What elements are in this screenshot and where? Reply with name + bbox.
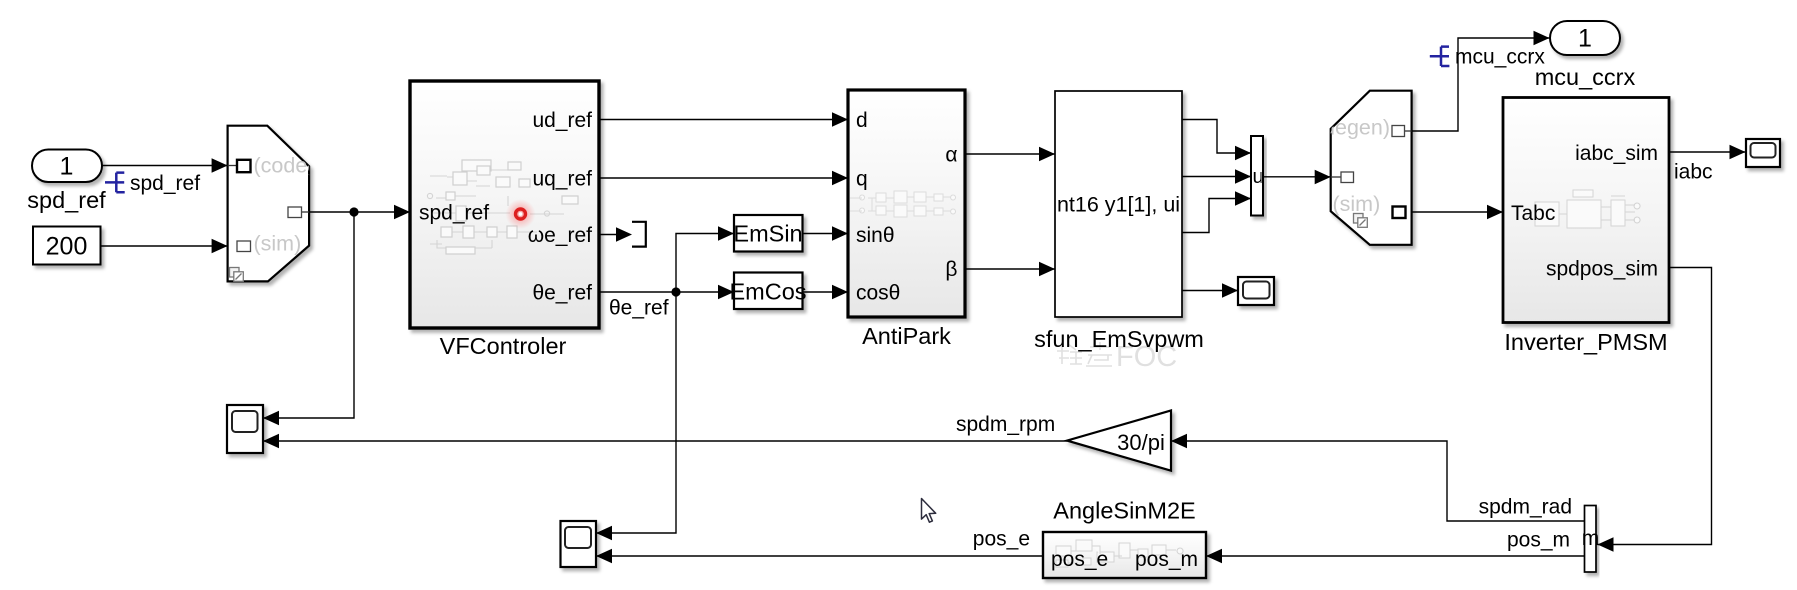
wire sfun out3 xyxy=(1182,199,1251,233)
wire EmCos out xyxy=(803,291,849,293)
svg-text:EmSin: EmSin xyxy=(733,221,802,247)
scope2 xyxy=(561,521,597,567)
svg-text:mcu_ccrx: mcu_ccrx xyxy=(1535,64,1636,90)
wire pos_e AngleSinM2E out to scope2 xyxy=(596,555,1043,557)
inport spd_ref xyxy=(27,150,106,214)
wire sfun out2 xyxy=(1182,176,1251,178)
wire iabc_sim to scope xyxy=(1669,151,1746,153)
wire variant2 gen to mcu_ccrx xyxy=(1404,38,1550,131)
wire sfun out4 to scope xyxy=(1182,290,1238,292)
wire thetae_ref xyxy=(596,234,734,534)
subsystem AntiPark xyxy=(848,90,965,349)
terminator xyxy=(632,222,646,247)
svg-text:pos_m: pos_m xyxy=(1135,548,1198,571)
block EmCos xyxy=(729,273,806,310)
subsystem AngleSinM2E xyxy=(1043,498,1206,579)
wire we_ref to terminator xyxy=(599,234,630,236)
svg-text:Tabc: Tabc xyxy=(1511,202,1555,225)
subsystem Inverter_PMSM xyxy=(1503,98,1669,356)
svg-text:m: m xyxy=(1582,527,1600,550)
svg-text:pos_e: pos_e xyxy=(973,528,1030,551)
svg-text:uq_ref: uq_ref xyxy=(532,168,592,191)
svg-text:d: d xyxy=(856,109,868,132)
svg-text:200: 200 xyxy=(46,233,88,261)
scope iabc xyxy=(1746,139,1780,167)
constant 200 xyxy=(33,227,101,265)
svg-text:VFControler: VFControler xyxy=(440,333,567,359)
junction node spd_ref branch xyxy=(349,207,358,216)
svg-text:spdm_rpm: spdm_rpm xyxy=(956,413,1055,436)
svg-text:spdm_rad: spdm_rad xyxy=(1479,496,1572,519)
svg-text:pos_m: pos_m xyxy=(1507,529,1570,552)
wire spdm_rpm gain out to scope1 xyxy=(263,440,1067,442)
arrowheads xyxy=(212,31,1746,564)
wire pos_m to AngleSinM2E xyxy=(1206,555,1585,557)
red breakpoint dot xyxy=(506,199,536,229)
svg-text:(sim): (sim) xyxy=(1333,192,1381,216)
svg-text:α: α xyxy=(945,144,957,167)
block EmSin xyxy=(733,215,802,252)
test point marker spd_ref xyxy=(105,173,125,193)
wire variant2 sim to Tabc xyxy=(1406,211,1504,213)
variant subsystem 2 xyxy=(1293,91,1411,245)
junction node thetae_ref branch xyxy=(671,287,680,296)
svg-text:mcu_ccrx: mcu_ccrx xyxy=(1455,46,1545,69)
test point marker mcu_ccrx xyxy=(1430,47,1450,66)
svg-text:spd_ref: spd_ref xyxy=(130,172,200,195)
wire beta xyxy=(965,268,1055,270)
svg-text:AntiPark: AntiPark xyxy=(862,323,951,349)
svg-text:spd_ref: spd_ref xyxy=(419,202,489,225)
wire ud_ref xyxy=(599,119,848,121)
wire uq_ref xyxy=(599,177,848,179)
wire sfun out1 xyxy=(1182,120,1251,154)
svg-text:ωe_ref: ωe_ref xyxy=(528,224,592,247)
svg-text:1: 1 xyxy=(1578,25,1592,53)
variant subsystem 1 xyxy=(228,126,351,282)
gain 30/pi xyxy=(1067,411,1171,471)
svg-text:θe_ref: θe_ref xyxy=(609,297,669,320)
svg-text:nt16 y1[1], ui: nt16 y1[1], ui xyxy=(1057,193,1180,217)
svg-text:θe_ref: θe_ref xyxy=(532,282,592,305)
scope1 left xyxy=(227,405,263,453)
wire EmSin out xyxy=(803,233,849,235)
mux bus creator xyxy=(1251,136,1264,216)
wire 200 to variant xyxy=(101,245,228,247)
svg-text:Inverter_PMSM: Inverter_PMSM xyxy=(1504,329,1667,355)
svg-text:iabc: iabc xyxy=(1674,161,1713,184)
svg-text:EmCos: EmCos xyxy=(729,279,806,305)
wire alpha xyxy=(965,153,1055,155)
wire variant1 out to VFControler xyxy=(263,212,410,418)
sfun_EmSvpwm block xyxy=(1034,91,1204,352)
svg-text:30/pi: 30/pi xyxy=(1117,430,1165,455)
mouse cursor xyxy=(922,499,936,523)
scope svpwm xyxy=(1238,277,1274,305)
svg-text:β: β xyxy=(945,258,957,281)
svg-text:q: q xyxy=(856,168,868,191)
subsystem VFControler xyxy=(410,81,599,359)
svg-text:spdpos_sim: spdpos_sim xyxy=(1546,258,1658,281)
svg-text:ud_ref: ud_ref xyxy=(532,109,592,132)
svg-text:sfun_EmSvpwm: sfun_EmSvpwm xyxy=(1034,326,1204,352)
svg-text:sinθ: sinθ xyxy=(856,224,895,247)
wire mux out to variant2 xyxy=(1263,176,1341,178)
outport mcu_ccrx xyxy=(1535,21,1636,90)
svg-text:(sim): (sim) xyxy=(254,232,302,256)
svg-text:spd_ref: spd_ref xyxy=(27,187,106,213)
wire spdm_rad to gain xyxy=(1171,441,1585,521)
svg-text:AngleSinM2E: AngleSinM2E xyxy=(1053,498,1195,524)
watermark xyxy=(1057,342,1112,366)
svg-text:cosθ: cosθ xyxy=(856,282,900,305)
svg-text:iabc_sim: iabc_sim xyxy=(1575,142,1658,165)
demux selector xyxy=(1582,506,1600,573)
svg-text:1: 1 xyxy=(60,153,74,181)
svg-text:pos_e: pos_e xyxy=(1051,548,1108,571)
wire spdpos_sim to demux xyxy=(1598,268,1712,545)
